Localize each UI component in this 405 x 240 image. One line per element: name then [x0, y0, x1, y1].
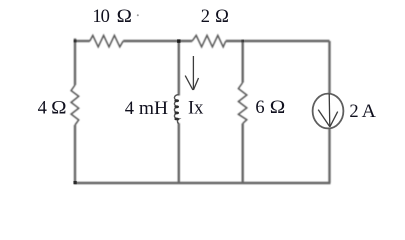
current arrow Ix [185, 56, 198, 90]
wire middle lower [178, 123, 180, 183]
stray speck artifact [137, 14, 139, 16]
node C junction 6ohm-top [241, 40, 244, 43]
wire 6ohm branch lower [241, 124, 243, 184]
svg-text:Ω: Ω [51, 98, 66, 118]
current source U1 circle [313, 94, 344, 129]
resistor R3 4 ohm zigzag [71, 85, 79, 125]
node A junction top-left [74, 40, 77, 43]
svg-text:2: 2 [201, 7, 210, 27]
svg-text:mH: mH [139, 99, 168, 119]
current source arrow [318, 94, 338, 127]
wire right lower [328, 128, 330, 183]
inductor coil knots [174, 99, 179, 120]
wire left upper [74, 38, 76, 85]
svg-text:6: 6 [255, 98, 264, 118]
wire top-middle segment [123, 40, 192, 42]
inductor L1 4 mH coil [174, 95, 178, 124]
resistor R4 6 ohm zigzag [238, 83, 246, 124]
svg-text:A: A [362, 102, 377, 122]
wire top-right segment [226, 40, 330, 42]
wire right upper [328, 41, 330, 95]
resistor R1 10 ohm zigzag [90, 35, 123, 47]
svg-text:Ix: Ix [188, 98, 204, 118]
svg-text:Ω: Ω [270, 98, 286, 118]
wire middle upper [178, 41, 180, 96]
svg-text:10: 10 [92, 7, 109, 27]
svg-text:4: 4 [125, 99, 134, 119]
wire top-left segment [75, 40, 90, 42]
svg-text:4: 4 [38, 98, 47, 118]
wire bottom [74, 182, 331, 184]
node D junction bottom-left [74, 181, 77, 184]
wire 6ohm branch upper [241, 41, 243, 83]
wire left lower [74, 125, 76, 183]
svg-text:Ω: Ω [215, 7, 229, 27]
svg-text:Ω: Ω [117, 7, 132, 27]
svg-text:2: 2 [349, 102, 358, 122]
node B junction middle-top [177, 39, 180, 42]
resistor R2 2 ohm zigzag [192, 35, 226, 47]
